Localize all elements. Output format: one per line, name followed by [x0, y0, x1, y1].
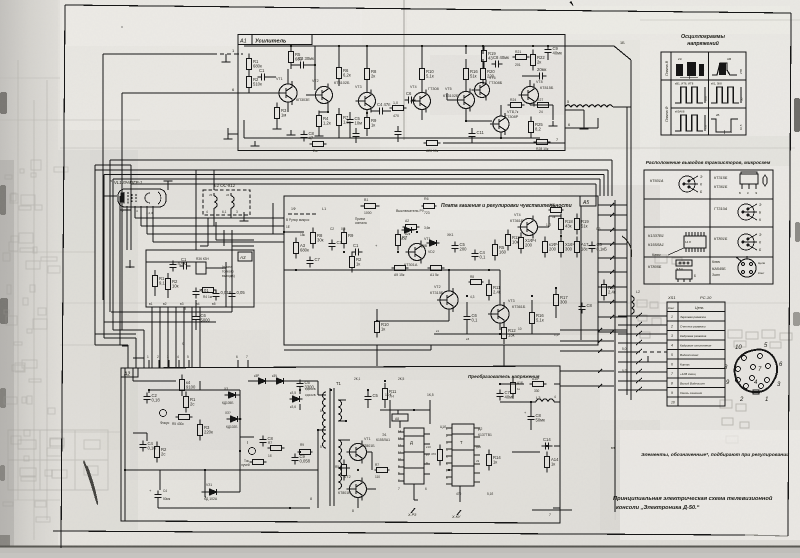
stray mark top — [570, 1, 573, 6]
svg-text:а: а — [110, 179, 112, 183]
svg-text:КД102Б: КД102Б — [305, 387, 316, 391]
svg-text:9: 9 — [671, 391, 673, 395]
svg-text:ХЗ?: ХЗ? — [225, 411, 231, 415]
svg-text:С4 47п: С4 47п — [377, 102, 390, 107]
svg-text:10к: 10к — [512, 240, 519, 245]
svg-text:6: 6 — [236, 355, 238, 359]
svg-text:Выход Видеосигн: Выход Видеосигн — [680, 382, 705, 386]
svg-text:КД102Б: КД102Б — [226, 425, 237, 429]
capacitor C4 A4 — [192, 288, 199, 299]
wire ic feeds — [390, 400, 430, 428]
svg-text:0,1кБ: 0,1кБ — [597, 247, 608, 252]
block A5 box — [284, 196, 598, 345]
wire — [120, 165, 131, 210]
wire VT5 chain — [465, 46, 467, 91]
svg-text:7,8: 7,8 — [704, 125, 708, 129]
left edge dark smudges — [0, 92, 10, 547]
resistor R13 A5 — [505, 230, 510, 251]
svg-text:Д2: Д2 — [478, 427, 482, 431]
pinout KT801B drawing — [738, 234, 757, 250]
resistor R6 — [336, 63, 341, 84]
svg-text:4,7к: 4,7к — [512, 110, 519, 114]
svg-text:К1ЗЗТВ1: К1ЗЗТВ1 — [648, 234, 664, 238]
wire — [167, 181, 169, 190]
bus wire right vertical 2 — [626, 107, 628, 395]
svg-text:К155ЛА1: К155ЛА1 — [648, 243, 664, 247]
svg-text:VD1: VD1 — [400, 237, 407, 241]
svg-text:2: 2 — [670, 325, 673, 329]
svg-text:723: 723 — [424, 211, 430, 215]
coil L3 A2 — [536, 399, 554, 402]
svg-text:к13: к13 — [426, 445, 431, 449]
svg-text:ГТ308: ГТ308 — [428, 87, 439, 91]
svg-text:1,0: 1,0 — [393, 101, 398, 105]
wire — [221, 470, 240, 492]
wire VL1 leads right — [135, 218, 284, 242]
wire input 2 vertical — [121, 93, 123, 330]
svg-text:КТ315Б: КТ315Б — [430, 291, 444, 295]
resistor A2R10 — [437, 445, 442, 466]
diode VD1 — [402, 227, 415, 233]
svg-text:14: 14 — [398, 429, 402, 433]
svg-text:Видеосигнал: Видеосигнал — [680, 353, 699, 357]
svg-text:40мк: 40мк — [505, 395, 515, 400]
resistor R25 — [528, 117, 533, 138]
resistor R6 — [422, 203, 437, 208]
svg-text:VT5: VT5 — [445, 87, 452, 91]
svg-text:680к: 680к — [300, 248, 309, 253]
svg-text:10В: 10В — [704, 96, 708, 101]
wire A5 exit 4 — [598, 243, 627, 245]
wire A5 right low — [532, 288, 556, 334]
bus wire h3 — [113, 178, 600, 180]
capacitor C2 A4 — [169, 261, 176, 272]
svg-text:Х.КУ: Х.КУ — [451, 515, 461, 519]
svg-text:18к: 18к — [300, 233, 306, 237]
svg-text:Е1 ОС-К12: Е1 ОС-К12 — [214, 183, 236, 188]
svg-text:Выключатель РУ: Выключатель РУ — [396, 209, 425, 213]
wire E1 top — [213, 170, 215, 190]
connector pin 3 — [766, 364, 771, 369]
wire A2 row — [149, 390, 240, 393]
svg-text:7: 7 — [671, 372, 673, 376]
svg-text:Расположение выводов транзисто: Расположение выводов транзисторов, микро… — [646, 160, 771, 166]
connector key notch — [753, 390, 759, 394]
svg-text:1б: 1б — [268, 454, 272, 458]
wire A5-A2 2 — [503, 345, 505, 366]
svg-text:VD2: VD2 — [428, 250, 435, 254]
svg-text:КТ815Б: КТ815Б — [540, 86, 554, 90]
resistor A2R2 — [183, 392, 188, 413]
capacitor C5b — [588, 242, 595, 253]
wire A5 inner right vertical — [580, 206, 582, 340]
svg-text:С8: С8 — [587, 303, 593, 308]
svg-text:напряжений: напряжений — [687, 40, 719, 47]
svg-text:4: 4 — [177, 355, 179, 359]
diode VD3 A2 — [256, 378, 269, 384]
capacitor C6 A4 — [228, 290, 235, 301]
resistor R9 — [364, 113, 369, 134]
svg-text:VT3: VT3 — [508, 299, 515, 303]
svg-text:3,6в: 3,6в — [424, 226, 430, 230]
oscillogram cell 5 — [675, 115, 703, 131]
svg-text:Плата В: Плата В — [665, 60, 669, 76]
paper bottom edge — [0, 547, 800, 553]
junction tick — [610, 213, 614, 217]
wire to ground right — [565, 110, 584, 124]
bus wire right vertical — [630, 60, 632, 400]
junction tick — [610, 203, 614, 207]
connector pin 1 — [742, 356, 747, 361]
svg-text:КТ801Б: КТ801Б — [338, 491, 351, 495]
svg-text:5: 5 — [671, 353, 673, 357]
svg-text:в2: в2 — [163, 302, 167, 306]
svg-text:с7: с7 — [426, 453, 430, 457]
wire join — [95, 165, 131, 170]
svg-text:КТ361Б: КТ361Б — [512, 305, 526, 309]
block A2 box — [121, 366, 560, 523]
svg-text:Б: Б — [694, 274, 696, 278]
svg-text:13: 13 — [398, 436, 402, 440]
svg-text:5: 5 — [187, 355, 189, 359]
ground — [251, 141, 260, 146]
oscillogram cell 1 burst — [676, 62, 704, 76]
wire A5 exit 5 — [598, 257, 627, 259]
wire VL1 down leads — [127, 206, 131, 250]
wire corner 4 — [122, 322, 140, 330]
resistor extra1 A5 — [542, 237, 547, 258]
svg-text:9: 9 — [184, 307, 186, 311]
junction tick — [610, 256, 614, 260]
svg-text:2: 2 — [739, 397, 744, 403]
svg-text:КТ801Б: КТ801Б — [714, 237, 728, 241]
svg-text:1К,5: 1К,5 — [427, 393, 434, 397]
svg-text:КД 102А: КД 102А — [204, 497, 218, 501]
wire — [228, 390, 300, 419]
svg-text:2с: 2с — [161, 452, 165, 457]
svg-text:Счетчик развязки: Счетчик развязки — [680, 325, 706, 329]
svg-text:КТ601А: КТ601А — [650, 179, 664, 183]
svg-text:ГТ310А: ГТ310А — [714, 207, 728, 211]
wire inside A4 — [146, 262, 226, 307]
svg-text:А9 15к: А9 15к — [394, 273, 405, 277]
svg-text:С7: С7 — [315, 257, 321, 262]
svg-text:VL1 ЛН4ЗГР-1: VL1 ЛН4ЗГР-1 — [114, 180, 142, 185]
wire A2 exit y351 — [560, 350, 614, 352]
svg-text:VT8: VT8 — [536, 80, 543, 84]
wire VT2 VT3 — [449, 270, 500, 305]
transistor VT2 — [313, 84, 333, 107]
capacitor C9 — [544, 46, 551, 57]
wire A2 low row — [125, 470, 206, 497]
svg-text:1Е: 1Е — [286, 225, 290, 229]
svg-text:1к: 1к — [381, 327, 385, 332]
svg-text:VT2: VT2 — [312, 79, 319, 83]
svg-text:51к: 51к — [581, 224, 588, 229]
wire bottom to edge — [443, 142, 565, 144]
pinout table frame — [644, 170, 773, 284]
wire A2 pin 1 — [148, 360, 150, 368]
junction tick — [610, 315, 614, 319]
wire row 312 — [111, 230, 232, 312]
svg-text:КТ3102Б: КТ3102Б — [334, 81, 350, 85]
wire T1 top — [300, 381, 318, 395]
connector pin 10 — [750, 376, 755, 381]
svg-text:L1: L1 — [322, 207, 326, 211]
wire connector row 9 — [618, 389, 667, 391]
svg-text:10м: 10м — [355, 121, 363, 126]
resistor R27 — [535, 102, 552, 107]
svg-text:Т: Т — [460, 440, 463, 445]
transistor VT4 — [411, 90, 431, 113]
wire R5 — [290, 46, 292, 69]
svg-text:VT4: VT4 — [410, 85, 417, 89]
svg-text:4: 4 — [671, 344, 673, 348]
resistor R2 — [246, 72, 251, 93]
wire input top — [103, 53, 213, 55]
svg-text:КА545Б: КА545Б — [712, 267, 726, 271]
coil L1 dashed — [288, 213, 316, 215]
svg-text:А8: А8 — [395, 417, 399, 421]
capacitor C14 A2 — [542, 442, 553, 449]
resistor A2R4 — [154, 442, 159, 463]
svg-text:6,1: 6,1 — [222, 210, 227, 214]
scratch arc right of A5 — [622, 236, 632, 258]
pinout GT310A drawing — [738, 204, 757, 220]
connector pin 2 — [758, 354, 763, 359]
wire row 322 — [104, 321, 216, 323]
capacitor C9 A2 — [291, 454, 298, 465]
resistor R21 A5 — [574, 237, 579, 258]
wire — [155, 270, 168, 298]
wire VT2 base — [306, 94, 315, 96]
capacitor C8 A5 — [463, 313, 470, 324]
wire — [225, 54, 227, 62]
wire riser 2 — [607, 170, 609, 196]
oscillogram table frame — [661, 52, 746, 135]
wire A5 exit 9 — [598, 316, 627, 318]
capacitor C6 A2 — [296, 380, 303, 391]
svg-text:1: 1 — [671, 315, 673, 319]
resistor R8 — [364, 64, 369, 85]
transistor VT3 — [356, 90, 376, 113]
svg-text:лучей: лучей — [241, 463, 250, 467]
wire R9 — [366, 110, 368, 136]
ground — [580, 124, 589, 129]
svg-text:1Б: 1Б — [620, 41, 625, 45]
block A4 box — [146, 250, 254, 307]
resistor A2R1 — [179, 375, 184, 396]
label A1 — [238, 35, 252, 45]
connector pin 9 — [751, 365, 756, 370]
resistor R7 — [336, 110, 341, 131]
svg-text:510к: 510к — [253, 82, 262, 87]
svg-text:С8 40мк: С8 40мк — [493, 55, 509, 60]
wire A1 exit 6 — [565, 118, 598, 128]
wire riser 4 — [599, 179, 601, 196]
wire bundle v4 — [232, 230, 254, 246]
bus left v1 — [94, 170, 96, 345]
svg-text:Б: Б — [739, 191, 741, 195]
fold crease vertical — [403, 0, 405, 140]
svg-text:220к: 220к — [204, 430, 213, 435]
svg-text:3: 3 — [671, 334, 673, 338]
svg-text:кК5АК8: кК5АК8 — [675, 110, 685, 114]
resistor B1 — [361, 203, 380, 208]
wire row 346 — [122, 345, 128, 347]
resistor R14 2m — [310, 141, 327, 146]
svg-text:R6: R6 — [424, 197, 429, 201]
svg-text:470: 470 — [456, 492, 462, 496]
pinout DIP IC drawing — [684, 232, 706, 252]
svg-text:0,1б: 0,1б — [152, 398, 161, 403]
label A2 — [121, 368, 138, 377]
svg-text:в1: в1 — [149, 302, 153, 306]
svg-text:R5: R5 — [335, 465, 339, 469]
wire VT2 emitter — [319, 104, 328, 131]
wire A1 top exit chamfer — [558, 46, 631, 60]
resistor R16 — [463, 64, 468, 85]
wire C3 node — [291, 46, 315, 90]
amplitude arrow — [704, 87, 706, 103]
wire A2 exit y371 — [560, 370, 614, 372]
block A1 amplifier box — [238, 35, 565, 151]
pinout TO-92 package — [740, 172, 758, 189]
svg-text:9: 9 — [182, 342, 184, 346]
svg-text:1: 1 — [765, 397, 768, 403]
ghost cluster near connector table — [637, 255, 749, 443]
svg-text:А5: А5 — [582, 200, 589, 206]
svg-text:14 8: 14 8 — [685, 240, 691, 244]
wire — [284, 345, 431, 350]
svg-text:I: I — [247, 440, 248, 445]
resistor R9 A5 — [341, 228, 346, 249]
svg-text:330: 330 — [534, 389, 540, 393]
svg-text:1,2,3: 1,2,3 — [146, 211, 153, 215]
wire drop x196 — [195, 170, 197, 250]
resistor A3 — [293, 238, 298, 259]
ground — [287, 130, 296, 135]
svg-text:200: 200 — [460, 247, 468, 252]
wire — [243, 212, 245, 216]
wire A5 exit 2 — [598, 214, 627, 216]
wire riser 5 — [595, 184, 597, 196]
resistor R19 A5 — [574, 214, 579, 235]
label Usilitel — [252, 35, 312, 45]
junction tick — [610, 285, 614, 289]
wire C6 — [195, 300, 197, 330]
pinout connector small drawing — [736, 256, 756, 277]
svg-text:Осциллограммы: Осциллограммы — [681, 34, 725, 40]
svg-text:8: 8 — [320, 409, 322, 413]
wire bundle v5 — [95, 196, 120, 345]
amplitude arrow — [704, 115, 706, 131]
wire A2 pin 5 — [188, 360, 190, 368]
ground — [335, 133, 344, 138]
oscillogram cell 2 trapezoid — [712, 63, 737, 75]
svg-text:300: 300 — [565, 247, 573, 252]
svg-text:1к: 1к — [552, 215, 556, 219]
transistor VT3 middle — [488, 302, 509, 326]
svg-text:7: 7 — [398, 487, 400, 491]
svg-text:к3Ч: к3Ч — [272, 374, 277, 378]
wire VL1 leads — [135, 206, 153, 242]
svg-text:200: 200 — [525, 243, 533, 248]
junction tick — [598, 339, 602, 343]
IC pin number speckle — [398, 429, 402, 482]
wire A5 exit 10 — [598, 331, 627, 333]
svg-text:R27: R27 — [537, 98, 543, 102]
ground — [224, 134, 233, 139]
svg-text:А1: А1 — [239, 39, 247, 45]
transistor VT1 middle — [406, 241, 426, 264]
svg-text:3: 3 — [236, 210, 238, 214]
svg-text:470: 470 — [393, 114, 399, 118]
pinout KT601A drawing — [679, 176, 698, 192]
ground — [315, 131, 324, 136]
svg-text:РС-10: РС-10 — [700, 295, 712, 300]
svg-text:КТ361Б: КТ361Б — [714, 185, 728, 189]
wire drop x273 — [272, 203, 274, 234]
bus left v4 — [130, 184, 132, 210]
svg-text:3: 3 — [167, 355, 169, 359]
wire vertical mid A2 — [240, 390, 254, 470]
svg-text:А10*: А10* — [532, 377, 540, 381]
resistor R1 — [246, 54, 251, 75]
svg-text:Зист: Зист — [712, 273, 720, 277]
wire VT8 base — [522, 76, 536, 87]
svg-text:1000: 1000 — [364, 211, 372, 215]
svg-text:Д9В: Д9В — [421, 244, 427, 248]
capacitor C3 — [297, 61, 308, 68]
junction dots A5 A2 — [204, 231, 557, 509]
block E1 OS-K12 dashed — [203, 190, 250, 215]
svg-text:Цепи: Цепи — [758, 261, 766, 265]
svg-text:Ключ: Ключ — [652, 253, 661, 257]
svg-text:В1: В1 — [364, 198, 368, 202]
wire — [133, 433, 147, 441]
resistor A2R11 — [486, 450, 491, 471]
capacitor C7 A2 — [496, 390, 503, 401]
svg-text:кЗ: кЗ — [466, 337, 469, 341]
svg-text:200: 200 — [549, 247, 557, 252]
svg-text:Элементы, обозначенные*, подби: Элементы, обозначенные*, подбирают при р… — [641, 451, 789, 458]
resistor A2 — [403, 224, 420, 229]
svg-text:С2: С2 — [337, 240, 343, 245]
wire R7 C5 — [339, 108, 350, 133]
ghost band above connector circle — [728, 330, 792, 348]
svg-text:к3Р: к3Р — [254, 374, 259, 378]
svg-text:5,0: 5,0 — [622, 347, 627, 351]
capacitor C4 A2 — [139, 441, 146, 452]
svg-text:д10: д10 — [476, 445, 481, 449]
diode VD2 — [427, 240, 440, 246]
transistor VT4 middle — [518, 216, 538, 239]
wire row 358 — [133, 357, 144, 359]
capacitor extra A5 — [471, 250, 478, 261]
connector pin 6 — [765, 378, 770, 383]
svg-text:VT1: VT1 — [276, 77, 283, 81]
svg-text:6: 6 — [671, 363, 673, 367]
svg-text:Ключ: Ключ — [712, 260, 720, 264]
svg-text:L2: L2 — [636, 290, 640, 294]
svg-text:0,1: 0,1 — [472, 318, 478, 323]
svg-text:2К,1: 2К,1 — [354, 377, 361, 381]
wire A2 exit y386 — [560, 385, 614, 387]
svg-text:43к: 43к — [565, 224, 572, 229]
svg-text:КТ361Б: КТ361Б — [510, 219, 524, 223]
svg-text:R28 10к: R28 10к — [536, 147, 549, 151]
